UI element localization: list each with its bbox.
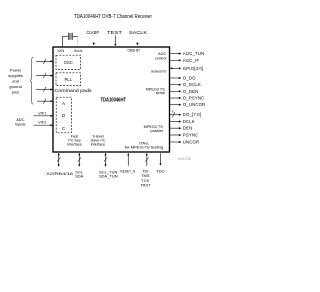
svg-text:control: control <box>155 57 167 61</box>
svg-text:SDA_TUN: SDA_TUN <box>99 173 118 178</box>
crystal X1 <box>63 33 78 47</box>
svg-text:DCLK: DCLK <box>183 119 195 124</box>
pin X2/RB4/16 bus <box>58 155 60 165</box>
svg-text:VIF2: VIF2 <box>38 121 46 125</box>
svg-text:pins: pins <box>12 90 19 95</box>
pin RESET_N <box>127 155 129 165</box>
svg-text:O_DO: O_DO <box>183 76 196 81</box>
svg-text:TDO: TDO <box>156 168 164 173</box>
svg-text:AGC_TUN: AGC_TUN <box>183 51 205 56</box>
pin O_DCLK <box>170 84 179 86</box>
svg-text:Xout: Xout <box>74 48 83 53</box>
svg-text:Command pads: Command pads <box>55 88 93 93</box>
svg-text:General I/O: General I/O <box>151 70 166 74</box>
svg-text:for MPEG-TS testing: for MPEG-TS testing <box>125 146 164 150</box>
svg-text:DEN: DEN <box>183 126 193 131</box>
svg-text:XIN: XIN <box>57 48 64 53</box>
adc ADC block <box>56 97 71 133</box>
pin DCLK <box>170 121 179 123</box>
pin PSYNC <box>170 134 179 136</box>
pin TDO <box>160 153 162 163</box>
node Power supplies and ground pins <box>8 68 23 95</box>
pin GPIO <box>172 67 179 69</box>
svg-text:X2/RB4/16: X2/RB4/16 <box>46 171 74 176</box>
svg-text:TRST: TRST <box>140 183 151 188</box>
svg-text:OSC: OSC <box>64 60 73 65</box>
svg-text:CLKBP: CLKBP <box>87 30 100 35</box>
pin DO bus <box>170 114 179 116</box>
brace grouping power pins <box>30 57 33 104</box>
svg-text:interface: interface <box>67 143 82 147</box>
svg-text:TDA10046HT DVB-T Channel Recei: TDA10046HT DVB-T Channel Receiver <box>74 14 152 20</box>
svg-text:parallel: parallel <box>151 129 163 133</box>
svg-text:DO_[7:0]: DO_[7:0] <box>183 112 201 117</box>
svg-text:VIF1: VIF1 <box>38 111 46 115</box>
pin O_DO <box>170 77 179 79</box>
svg-text:O_UNCOR: O_UNCOR <box>183 102 206 107</box>
pin AGC_IF <box>170 59 179 61</box>
pin O_PSYNC <box>170 97 179 99</box>
pin O_DEN <box>170 90 179 92</box>
svg-text:TEST: TEST <box>107 30 123 35</box>
wire power bus 3 <box>36 87 50 92</box>
svg-text:RESET_N: RESET_N <box>120 169 135 173</box>
pin DEN <box>170 127 179 129</box>
wire power bus 1 <box>36 59 50 64</box>
svg-text:Clock I/O: Clock I/O <box>128 48 141 52</box>
oscillator OSC <box>56 55 81 69</box>
svg-text:interface: interface <box>91 143 106 147</box>
chip U1 <box>53 47 170 152</box>
pin O_UNCOR <box>170 104 179 106</box>
pin SCL SDA <box>78 155 80 165</box>
svg-text:ground: ground <box>9 84 21 89</box>
svg-text:SDA: SDA <box>75 173 84 178</box>
svg-text:UNCOR: UNCOR <box>183 140 200 145</box>
pin SCL_TUN SDA_TUN <box>105 155 107 165</box>
svg-text:serial: serial <box>156 91 165 95</box>
pin JTAG bus TDI TMS TCK TRST <box>146 155 148 165</box>
svg-text:O_DCLK: O_DCLK <box>183 82 201 87</box>
svg-text:PLL: PLL <box>64 77 72 82</box>
pin AGC_TUN <box>170 53 179 55</box>
svg-text:PSYNC: PSYNC <box>183 133 199 138</box>
wire power bus 2 <box>36 73 50 78</box>
pll PLL <box>56 73 81 86</box>
svg-text:Power: Power <box>10 68 22 73</box>
svg-text:O_PSYNC: O_PSYNC <box>183 96 205 101</box>
svg-text:O_DEN: O_DEN <box>183 89 199 94</box>
svg-text:MGU748: MGU748 <box>178 157 191 161</box>
svg-text:SACLK: SACLK <box>129 30 147 35</box>
wire power bus 4 <box>37 99 50 104</box>
svg-text:AGC_IF: AGC_IF <box>183 58 200 63</box>
svg-text:and: and <box>12 79 19 84</box>
svg-text:GPIO[3:0]: GPIO[3:0] <box>183 66 203 71</box>
svg-text:supplies: supplies <box>8 73 23 78</box>
svg-text:inputs: inputs <box>15 122 25 127</box>
pin UNCOR <box>170 141 179 143</box>
svg-text:TDA10046HT: TDA10046HT <box>101 98 127 104</box>
